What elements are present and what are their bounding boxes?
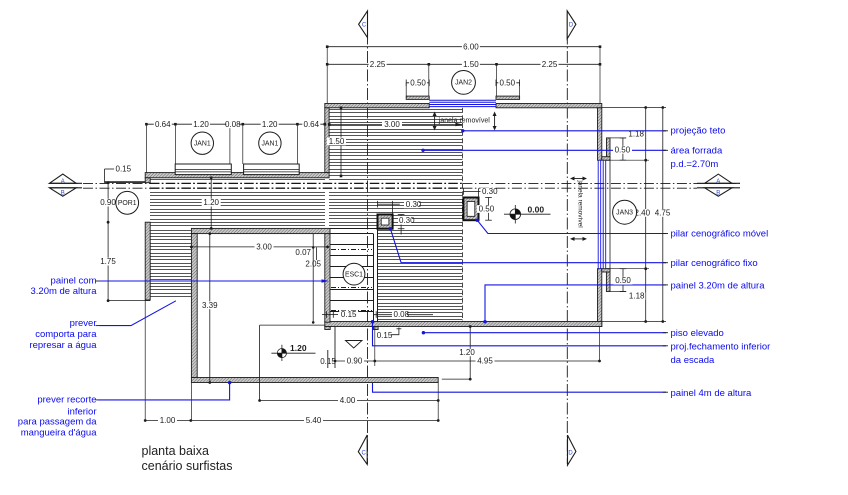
svg-text:painel com: painel com xyxy=(51,276,97,287)
svg-text:0.15: 0.15 xyxy=(116,164,132,173)
svg-text:JAN2: JAN2 xyxy=(455,80,472,87)
svg-text:3.00: 3.00 xyxy=(256,242,272,251)
svg-text:1.20: 1.20 xyxy=(290,343,307,353)
svg-text:planta baixa: planta baixa xyxy=(142,444,209,458)
svg-text:1.00: 1.00 xyxy=(160,416,176,425)
svg-text:C: C xyxy=(362,23,367,29)
svg-text:comporta para: comporta para xyxy=(35,329,97,340)
svg-text:JAN1: JAN1 xyxy=(261,140,278,147)
svg-text:p.d.=2.70m: p.d.=2.70m xyxy=(671,159,719,170)
svg-text:2.25: 2.25 xyxy=(542,60,558,69)
svg-text:JAN3: JAN3 xyxy=(616,209,633,216)
svg-text:0.07: 0.07 xyxy=(295,248,311,257)
svg-text:1.18: 1.18 xyxy=(629,292,645,301)
svg-text:área forrada: área forrada xyxy=(671,145,723,156)
svg-text:2.05: 2.05 xyxy=(305,259,321,268)
svg-text:1.20: 1.20 xyxy=(262,120,278,129)
svg-text:0.30: 0.30 xyxy=(482,187,498,196)
svg-text:JAN1: JAN1 xyxy=(194,140,211,147)
svg-text:0.30: 0.30 xyxy=(399,216,415,225)
svg-text:0.50: 0.50 xyxy=(615,276,631,285)
svg-text:1.50: 1.50 xyxy=(329,137,345,146)
svg-text:1.20: 1.20 xyxy=(193,120,209,129)
svg-text:0.50: 0.50 xyxy=(410,78,426,87)
svg-text:A: A xyxy=(716,179,720,185)
svg-text:para passagem da: para passagem da xyxy=(18,416,97,427)
svg-text:6.00: 6.00 xyxy=(463,42,479,51)
svg-text:B: B xyxy=(716,191,720,197)
svg-text:1.20: 1.20 xyxy=(203,198,219,207)
svg-text:cenário surfistas: cenário surfistas xyxy=(142,459,233,473)
svg-text:painel 4m de altura: painel 4m de altura xyxy=(671,388,753,399)
svg-text:4.95: 4.95 xyxy=(477,357,493,366)
svg-text:3.00: 3.00 xyxy=(384,120,400,129)
svg-text:painel 3.20m de altura: painel 3.20m de altura xyxy=(671,280,766,291)
svg-text:2.25: 2.25 xyxy=(370,60,386,69)
svg-text:0.50: 0.50 xyxy=(500,78,516,87)
svg-text:prever: prever xyxy=(70,318,97,329)
svg-text:1.75: 1.75 xyxy=(100,257,116,266)
svg-text:0.64: 0.64 xyxy=(155,120,171,129)
svg-text:A: A xyxy=(61,179,65,185)
svg-text:C: C xyxy=(362,450,367,456)
svg-text:represar a água: represar a água xyxy=(29,340,97,351)
svg-text:piso elevado: piso elevado xyxy=(671,328,724,339)
svg-text:proj.fechamento inferior: proj.fechamento inferior xyxy=(671,341,771,352)
svg-text:3.39: 3.39 xyxy=(202,301,218,310)
svg-text:1.18: 1.18 xyxy=(628,130,644,139)
svg-text:0.08: 0.08 xyxy=(394,310,410,319)
svg-text:janela removível: janela removível xyxy=(576,179,583,228)
svg-text:0.15: 0.15 xyxy=(341,310,357,319)
svg-text:mangueira d'água: mangueira d'água xyxy=(21,428,97,439)
svg-text:0.90: 0.90 xyxy=(100,198,116,207)
svg-text:0.64: 0.64 xyxy=(304,120,320,129)
svg-text:pilar cenográfico móvel: pilar cenográfico móvel xyxy=(671,228,769,239)
svg-text:pilar cenográfico fixo: pilar cenográfico fixo xyxy=(671,258,758,269)
svg-text:0.15: 0.15 xyxy=(320,357,336,366)
svg-text:0.50: 0.50 xyxy=(615,145,631,154)
svg-text:1.50: 1.50 xyxy=(463,60,479,69)
svg-text:0.00: 0.00 xyxy=(528,204,545,214)
svg-text:0.90: 0.90 xyxy=(347,357,363,366)
svg-text:POR1: POR1 xyxy=(118,200,137,207)
svg-text:4.75: 4.75 xyxy=(655,208,671,217)
svg-text:4.00: 4.00 xyxy=(340,396,356,405)
svg-text:prever recorte: prever recorte xyxy=(37,395,96,406)
svg-text:B: B xyxy=(61,191,65,197)
svg-text:1.20: 1.20 xyxy=(459,348,475,357)
svg-text:da escada: da escada xyxy=(671,355,716,366)
svg-text:janela removível: janela removível xyxy=(438,118,490,125)
svg-text:ESC1: ESC1 xyxy=(345,271,363,278)
svg-text:0.08: 0.08 xyxy=(225,120,241,129)
svg-text:0.15: 0.15 xyxy=(377,331,393,340)
svg-text:D: D xyxy=(568,451,573,457)
svg-text:0.50: 0.50 xyxy=(479,205,495,214)
svg-text:3.20m de altura: 3.20m de altura xyxy=(30,286,97,297)
svg-text:projeção teto: projeção teto xyxy=(671,126,726,137)
svg-text:D: D xyxy=(569,23,574,29)
svg-text:0.30: 0.30 xyxy=(406,200,422,209)
svg-text:5.40: 5.40 xyxy=(306,416,322,425)
